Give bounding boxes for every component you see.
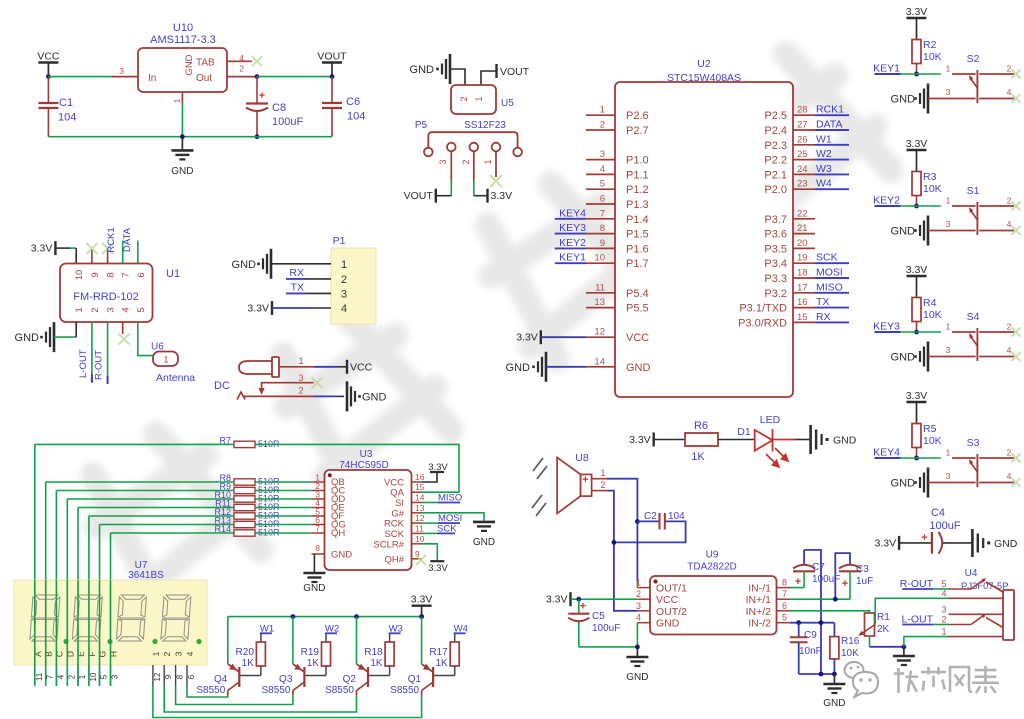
capacitor C8 100uF [256, 77, 258, 104]
svg-text:10: 10 [594, 253, 605, 264]
svg-text:+: + [795, 576, 801, 588]
wire segment wires over display [34, 580, 36, 686]
7-segment digit [30, 595, 60, 641]
svg-text:P3.0/RXD: P3.0/RXD [738, 317, 787, 329]
svg-text:12: 12 [594, 327, 605, 338]
svg-text:S8550: S8550 [261, 685, 290, 696]
wire [271, 263, 331, 265]
junction [46, 74, 51, 79]
svg-text:S2: S2 [967, 53, 980, 65]
pin 8 of U9 [777, 587, 791, 589]
svg-text:2: 2 [600, 120, 605, 131]
wire [901, 331, 942, 333]
svg-text:4: 4 [56, 674, 65, 679]
pin 1 of U2 [586, 114, 615, 116]
pin 9 of U3 NC [416, 555, 426, 565]
pin 28 of U2 [793, 114, 815, 116]
wire [933, 624, 948, 626]
pin 4 of U1 NC [122, 322, 124, 334]
svg-text:GND: GND [994, 538, 1018, 550]
svg-text:15: 15 [415, 482, 425, 492]
svg-text:4: 4 [1007, 219, 1012, 229]
wire [255, 515, 311, 517]
svg-text:C1: C1 [59, 97, 73, 109]
svg-text:18: 18 [797, 268, 808, 279]
wire SCLR# to 3.3V [422, 544, 437, 561]
wire [56, 490, 234, 492]
capacitor C1 [47, 77, 49, 103]
pin 16 of U3 [412, 481, 423, 483]
resistor R10 510R [234, 496, 255, 502]
resistor R18 1K [385, 642, 394, 666]
pin 3 of U10 [111, 76, 138, 78]
svg-text:RX: RX [289, 267, 304, 279]
resistor R2 10K [912, 40, 921, 64]
power flag 3.3V [474, 195, 488, 197]
svg-text:VCC: VCC [37, 51, 60, 63]
svg-text:GND: GND [891, 478, 916, 490]
svg-text:C2: C2 [644, 511, 657, 522]
svg-text:1K: 1K [370, 658, 383, 669]
svg-text:3: 3 [174, 651, 184, 656]
wire [306, 278, 331, 280]
svg-text:2: 2 [298, 386, 303, 396]
junction [612, 540, 617, 545]
svg-text:R4: R4 [923, 297, 937, 309]
svg-text:4: 4 [1007, 87, 1012, 97]
svg-text:+: + [921, 532, 927, 544]
svg-text:P3.6: P3.6 [764, 229, 787, 241]
svg-text:VCC: VCC [350, 361, 373, 373]
wire [255, 532, 311, 534]
pin 21 of U2 [793, 233, 815, 235]
ground at U1 [53, 322, 56, 352]
svg-text:10K: 10K [923, 51, 942, 63]
svg-text:GND: GND [303, 583, 325, 594]
pin 12 of U2 [586, 336, 615, 338]
svg-text:1: 1 [74, 307, 85, 312]
capacitor C5 100uF [578, 599, 580, 614]
svg-text:KEY3: KEY3 [559, 222, 586, 234]
svg-text:3: 3 [298, 373, 303, 383]
pin 11 of U2 [586, 292, 615, 294]
svg-text:Q4: Q4 [214, 674, 228, 685]
svg-text:IN+/1: IN+/1 [746, 594, 772, 606]
resistor R16 10K [833, 623, 835, 637]
svg-text:15: 15 [797, 312, 808, 323]
svg-text:TX: TX [816, 296, 829, 308]
resistor R5 10K [912, 424, 921, 448]
pin 5 of U3 [311, 515, 324, 517]
svg-text:P3.3: P3.3 [764, 273, 787, 285]
svg-text:C6: C6 [346, 96, 360, 108]
node DATA [815, 129, 849, 131]
node MOSI [422, 522, 438, 524]
svg-text:OUT/2: OUT/2 [656, 606, 687, 618]
svg-text:3: 3 [119, 66, 124, 76]
pin 15 of U3 [412, 491, 423, 493]
resistor R14 510R [234, 530, 255, 536]
svg-text:W1: W1 [816, 133, 832, 145]
pin 2 of U10 [227, 76, 257, 78]
svg-text:Q3: Q3 [279, 674, 293, 685]
svg-text:VCC: VCC [626, 332, 649, 344]
svg-text:7: 7 [782, 589, 787, 599]
svg-text:VOUT: VOUT [500, 66, 530, 78]
svg-text:W3: W3 [816, 163, 832, 175]
svg-text:2: 2 [90, 307, 101, 312]
svg-text:Antenna: Antenna [156, 372, 195, 384]
node KEY4 [555, 218, 586, 220]
svg-text:SCK: SCK [384, 529, 404, 540]
svg-text:GND: GND [891, 94, 916, 106]
svg-text:P1.1: P1.1 [626, 169, 649, 181]
resistor R9 510R [234, 487, 255, 493]
svg-text:8: 8 [600, 223, 605, 234]
svg-text:U8: U8 [575, 452, 589, 464]
svg-text:R19: R19 [301, 647, 320, 658]
pin 8 of U3 GND [311, 553, 324, 555]
wire [255, 490, 311, 492]
svg-text:U2: U2 [697, 58, 711, 70]
svg-text:16: 16 [415, 472, 425, 482]
wire [314, 395, 338, 397]
wire [933, 588, 948, 590]
svg-text:P2.3: P2.3 [764, 140, 787, 152]
svg-text:2: 2 [1007, 322, 1012, 332]
wire R7 to QA [255, 444, 459, 492]
svg-text:1: 1 [636, 578, 641, 588]
node TX [815, 307, 849, 309]
svg-text:1: 1 [946, 322, 951, 332]
svg-text:10K: 10K [923, 183, 942, 195]
wire [35, 443, 234, 445]
svg-text:P3.2: P3.2 [764, 288, 787, 300]
svg-text:2: 2 [600, 480, 605, 490]
pin 9 NC [91, 249, 93, 264]
potentiometer R1 2K [865, 613, 875, 636]
wire [255, 524, 311, 526]
svg-text:U3: U3 [360, 449, 373, 460]
wire [450, 181, 452, 196]
junction [635, 645, 640, 650]
wire bottom rail [799, 673, 835, 675]
pin 2 of U9 [637, 598, 650, 600]
svg-text:3: 3 [946, 219, 951, 229]
svg-text:6: 6 [136, 272, 147, 277]
pin 7 of U3 [311, 532, 324, 534]
svg-text:R17: R17 [429, 647, 448, 658]
svg-text:4: 4 [1007, 471, 1012, 481]
power flag VOUT [435, 189, 437, 203]
node W1 [815, 144, 849, 146]
svg-text:3641BS: 3641BS [128, 570, 164, 581]
svg-text:1: 1 [341, 259, 347, 271]
svg-text:5: 5 [100, 674, 109, 679]
svg-text:GND: GND [331, 550, 352, 561]
svg-text:9: 9 [164, 674, 173, 679]
svg-text:11: 11 [35, 672, 44, 681]
node DATA [137, 241, 139, 264]
svg-text:2: 2 [459, 96, 469, 101]
svg-text:1: 1 [151, 651, 161, 656]
node MISO [815, 292, 849, 294]
svg-text:KEY1: KEY1 [559, 252, 586, 264]
wire [356, 617, 358, 664]
svg-text:4: 4 [941, 589, 946, 599]
ground at DC jack [346, 381, 349, 411]
svg-text:P1: P1 [333, 235, 346, 247]
svg-text:IN+/2: IN+/2 [746, 606, 772, 618]
ground [181, 137, 183, 151]
svg-text:3: 3 [946, 471, 951, 481]
svg-text:GND: GND [362, 391, 387, 403]
svg-text:104: 104 [347, 111, 365, 123]
svg-text:GND: GND [506, 362, 531, 374]
svg-text:R5: R5 [923, 423, 937, 435]
wire [54, 336, 76, 338]
svg-text:MOSI: MOSI [816, 267, 843, 279]
svg-text:P2.6: P2.6 [626, 110, 649, 122]
junction [291, 614, 296, 619]
svg-text:1K: 1K [435, 658, 448, 669]
svg-text:P1.5: P1.5 [626, 229, 649, 241]
svg-text:DATA: DATA [816, 119, 842, 131]
wire pin7 [790, 598, 850, 600]
svg-text:10nF: 10nF [799, 646, 822, 657]
wire pin5 [790, 622, 834, 624]
pin 19 of U2 [793, 262, 815, 264]
svg-text:QH#: QH# [384, 554, 404, 565]
junction [180, 134, 185, 139]
wire [421, 617, 423, 664]
svg-text:3: 3 [636, 601, 641, 611]
svg-text:QH: QH [331, 528, 345, 539]
svg-text:7: 7 [315, 524, 320, 534]
resistor R4 10K [912, 298, 921, 322]
junction [354, 614, 359, 619]
svg-text:4: 4 [600, 164, 605, 175]
power flag 3.3V at U9 VCC [569, 592, 571, 606]
svg-text:SCLR#: SCLR# [373, 539, 404, 550]
decimal point [107, 639, 112, 644]
wire ground rail [48, 136, 332, 138]
svg-text:L-OUT: L-OUT [78, 349, 89, 378]
wire [67, 498, 234, 500]
svg-text:P2.2: P2.2 [764, 155, 787, 167]
ground at C4 [971, 529, 974, 557]
pin 24 of U2 [793, 173, 815, 175]
wire [579, 646, 638, 648]
svg-text:SCK: SCK [816, 252, 838, 264]
svg-text:10K: 10K [841, 648, 859, 659]
svg-text:+: + [582, 474, 588, 486]
pin 5 of U2 [586, 188, 615, 190]
junction [819, 672, 824, 677]
svg-text:4: 4 [341, 303, 347, 315]
svg-text:22: 22 [797, 208, 808, 219]
svg-text:In: In [148, 73, 156, 84]
svg-text:AMS1117-3.3: AMS1117-3.3 [150, 34, 216, 46]
junction [796, 620, 801, 625]
svg-text:23: 23 [797, 179, 808, 190]
P5 hole 3 [470, 143, 479, 152]
svg-text:GND: GND [232, 259, 257, 271]
svg-text:2: 2 [1007, 196, 1012, 206]
svg-text:6: 6 [600, 194, 605, 205]
wire [718, 439, 755, 441]
svg-text:8: 8 [315, 543, 320, 553]
wire emitter rail [228, 616, 422, 618]
pin 4 of U3 [311, 507, 324, 509]
wire [314, 366, 338, 368]
junction [419, 614, 424, 619]
wire collector [153, 686, 422, 718]
svg-text:5: 5 [136, 307, 147, 312]
svg-text:SCK: SCK [437, 523, 457, 534]
svg-text:19: 19 [797, 253, 808, 264]
svg-text:+: + [259, 90, 265, 102]
svg-text:U4: U4 [965, 568, 978, 579]
power flag 3.3V at U2 VCC [540, 330, 542, 344]
svg-text:2: 2 [239, 64, 244, 74]
wire [481, 71, 497, 85]
svg-text:7: 7 [121, 272, 132, 277]
pin 7 of U9 [777, 598, 791, 600]
wire [901, 73, 942, 75]
svg-text:W2: W2 [816, 148, 832, 160]
junction [419, 614, 424, 619]
ground [449, 54, 452, 84]
wire collector [176, 686, 293, 705]
svg-text:3.3V: 3.3V [906, 6, 928, 18]
wire [571, 598, 638, 600]
decimal point [196, 639, 201, 644]
svg-text:6: 6 [782, 601, 787, 611]
svg-text:+: + [842, 578, 848, 590]
svg-text:C4: C4 [931, 507, 945, 519]
svg-text:P3.7: P3.7 [764, 214, 787, 226]
svg-text:GND: GND [171, 166, 193, 177]
junction [914, 72, 919, 77]
P5 hole 5 [513, 148, 522, 157]
wire [181, 103, 183, 137]
junction [330, 74, 335, 79]
svg-text:IN-/2: IN-/2 [748, 618, 771, 630]
pin 7 of U2 [586, 218, 615, 220]
svg-text:MISO: MISO [816, 281, 843, 293]
resistor R8 510R [234, 479, 255, 485]
svg-text:TX: TX [291, 282, 304, 294]
pin 6 of U2 [586, 203, 615, 205]
junction [914, 456, 919, 461]
decor [845, 662, 879, 697]
7-segment digit [116, 595, 146, 641]
svg-text:S8550: S8550 [325, 685, 354, 696]
svg-text:1: 1 [474, 96, 484, 101]
pin 1 of U10 [181, 92, 183, 103]
svg-text:Q1: Q1 [408, 674, 422, 685]
svg-text:R1: R1 [877, 612, 890, 623]
svg-text:14: 14 [594, 356, 605, 367]
svg-text:27: 27 [797, 120, 808, 131]
wire [89, 515, 234, 517]
svg-text:1: 1 [298, 356, 303, 366]
decimal point [152, 639, 157, 644]
svg-text:RCK1: RCK1 [816, 104, 844, 116]
wire [255, 481, 311, 483]
svg-text:13: 13 [415, 503, 425, 513]
wire collector [187, 686, 228, 697]
pin 6 of U3 [311, 524, 324, 526]
wire pin6 to R1 [790, 611, 870, 613]
svg-text:16: 16 [797, 297, 808, 308]
svg-text:P5.4: P5.4 [626, 288, 649, 300]
svg-text:P3.5: P3.5 [764, 243, 787, 255]
svg-text:8: 8 [106, 272, 117, 277]
svg-text:1: 1 [946, 196, 951, 206]
svg-text:TAB: TAB [196, 58, 215, 69]
ground at R1 [903, 647, 905, 656]
svg-text:DATA: DATA [122, 227, 133, 252]
wire [904, 637, 949, 647]
svg-text:7: 7 [600, 208, 605, 219]
wire VCC to U10 In [48, 76, 111, 78]
svg-text:3.3V: 3.3V [31, 243, 53, 255]
svg-text:KEY2: KEY2 [873, 195, 900, 207]
svg-text:C3: C3 [856, 564, 869, 575]
svg-text:S1: S1 [967, 185, 980, 197]
svg-text:P1.6: P1.6 [626, 243, 649, 255]
svg-text:3: 3 [600, 149, 605, 160]
node L-OUT [91, 322, 93, 383]
svg-text:3.3V: 3.3V [247, 303, 269, 315]
wire C7 top [804, 550, 821, 674]
pin 25 of U2 [793, 159, 815, 161]
capacitor C3 1uF [835, 553, 850, 599]
wire [541, 336, 586, 338]
svg-text:P2.7: P2.7 [626, 125, 649, 137]
svg-text:12: 12 [153, 672, 162, 681]
svg-text:S8550: S8550 [390, 685, 419, 696]
svg-text:10: 10 [415, 534, 425, 544]
svg-text:Out: Out [196, 73, 212, 84]
svg-text:P3.1/TXD: P3.1/TXD [739, 303, 787, 315]
svg-text:S3: S3 [967, 437, 980, 449]
wire [227, 617, 229, 664]
pin 23 of U2 [793, 188, 815, 190]
junction [255, 74, 260, 79]
svg-text:2: 2 [1007, 448, 1012, 458]
resistor R19 1K [322, 642, 331, 666]
svg-text:10K: 10K [923, 309, 942, 321]
capacitor C6 [331, 77, 333, 103]
pin 3 of U9 [637, 610, 650, 612]
node KEY2 [555, 247, 586, 249]
power flag 3.3V at R6 [653, 433, 655, 447]
svg-text:U1: U1 [166, 268, 180, 280]
P5 hole 4 [492, 143, 501, 152]
node R-OUT [107, 322, 109, 384]
svg-text:R20: R20 [236, 647, 255, 658]
svg-text:2: 2 [941, 615, 946, 625]
wire [100, 524, 235, 526]
svg-text:3: 3 [111, 674, 120, 679]
svg-text:1uF: 1uF [856, 576, 873, 587]
svg-text:FM-RRD-102: FM-RRD-102 [73, 291, 138, 303]
svg-text:TDA2822D: TDA2822D [687, 562, 736, 573]
svg-text:3.3V: 3.3V [428, 563, 448, 574]
